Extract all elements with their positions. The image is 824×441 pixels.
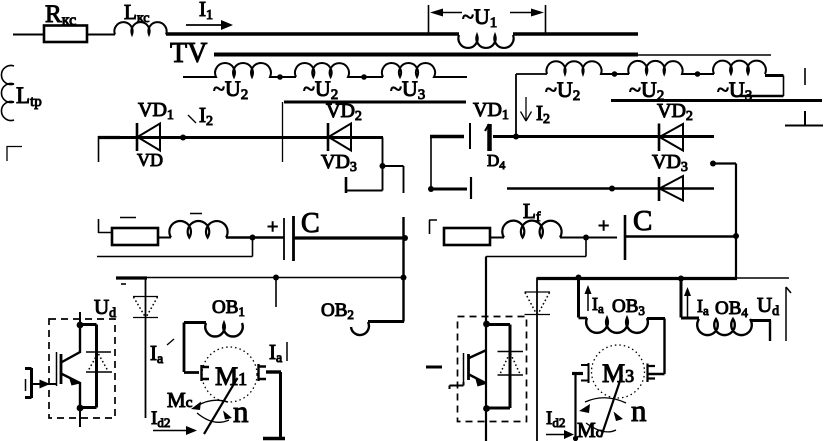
label Id2 left with arrow <box>151 408 197 435</box>
svg-text:VD3: VD3 <box>321 151 357 175</box>
svg-text:+: + <box>267 216 278 238</box>
diode IGBT antiparallel left <box>86 352 112 372</box>
node dot <box>250 235 256 241</box>
wire rail left <box>116 276 147 279</box>
transformer secondary winding left group 2 <box>295 63 383 77</box>
node I2 junction <box>180 135 186 141</box>
svg-text:Ltp: Ltp <box>16 83 42 110</box>
annotation ~U1 <box>429 4 546 34</box>
winding OB3 <box>579 278 666 375</box>
svg-text:Ud: Ud <box>757 293 779 319</box>
current arrow I1 <box>186 0 233 30</box>
tick mark <box>121 283 126 285</box>
svg-text:TV: TV <box>170 38 207 69</box>
wire <box>226 236 284 238</box>
svg-text:VD2: VD2 <box>657 100 693 124</box>
winding OB4 <box>681 279 771 342</box>
wire cathode bus right <box>493 135 714 138</box>
diode freewheeling left <box>133 297 158 318</box>
wire filter input corner right <box>429 220 437 234</box>
transformer secondary winding right group 2 <box>628 61 714 74</box>
arrow Mc arcs left <box>191 400 229 422</box>
wire left start corner <box>98 136 120 139</box>
wire filter input corner left <box>99 219 113 233</box>
svg-text:Lf: Lf <box>523 199 541 225</box>
node dot <box>710 161 716 167</box>
resistor Rkc <box>44 1 87 42</box>
node dot <box>612 71 618 77</box>
winding OB1 <box>184 323 243 373</box>
svg-text:VD1: VD1 <box>473 99 509 123</box>
wire upper bus left <box>284 101 466 104</box>
wire anode bus right <box>507 187 714 190</box>
node dot <box>277 74 283 80</box>
svg-text:~U1: ~U1 <box>462 4 497 31</box>
transformer TV primary winding <box>458 35 513 48</box>
svg-text:Id2: Id2 <box>546 408 565 430</box>
svg-text:~U2: ~U2 <box>545 77 580 104</box>
diode freewheeling right <box>525 292 551 315</box>
wire return branch left <box>97 238 253 257</box>
inductor Lf left <box>169 221 227 238</box>
wire <box>87 34 115 36</box>
svg-text:Mc: Mc <box>167 388 193 412</box>
inductor Lf right <box>502 221 561 238</box>
wire output link right <box>713 164 736 279</box>
diode VD3 cathode bar left <box>345 177 348 193</box>
winding OB2 <box>351 322 404 336</box>
contact bar <box>470 177 472 199</box>
wire cap output left <box>294 236 405 239</box>
label Ia right <box>269 340 287 366</box>
node dot <box>695 71 701 77</box>
svg-text:OB4: OB4 <box>715 298 748 320</box>
terminal gate left <box>25 368 32 398</box>
wire diode line right <box>536 278 538 441</box>
motor M3 circle <box>592 345 645 398</box>
arrow Ud right <box>786 287 791 341</box>
svg-text:n: n <box>631 393 647 428</box>
transformer secondary winding right group 3 <box>713 61 766 74</box>
wire IGBT feed right <box>485 257 487 441</box>
svg-text:C: C <box>633 205 652 237</box>
svg-text:VD2: VD2 <box>326 100 362 124</box>
diode VD1 <box>137 123 160 151</box>
wire cathode bus left <box>99 136 383 139</box>
wire <box>560 237 617 239</box>
motor M1 circle <box>202 347 257 402</box>
svg-text:I1: I1 <box>199 0 213 23</box>
svg-text:~U2: ~U2 <box>303 76 338 103</box>
svg-text:VD3: VD3 <box>652 151 688 175</box>
wire diode branch right <box>487 325 511 409</box>
node dot <box>483 405 490 412</box>
transformer TV core bar <box>214 53 638 57</box>
node dot <box>77 322 84 329</box>
svg-text:I2: I2 <box>536 101 550 127</box>
diode VD2 right <box>659 124 683 152</box>
transformer secondary winding left group 1 <box>183 63 296 77</box>
wire return branch right <box>486 238 586 257</box>
label Id2 right with arrow <box>546 408 574 439</box>
wire positive feed left <box>402 217 404 322</box>
IGBT module box left <box>49 319 115 418</box>
wire collector pin <box>79 312 81 325</box>
wire cap output right <box>626 235 736 237</box>
diode IGBT antiparallel right <box>498 352 524 376</box>
inductor Lkc <box>114 0 166 35</box>
label remains <box>120 214 202 218</box>
label I2 with tick <box>188 103 213 129</box>
ground right edge <box>785 111 823 126</box>
svg-text:VD: VD <box>137 150 163 170</box>
svg-text:I2: I2 <box>199 103 213 129</box>
node dot <box>77 405 84 412</box>
wire rail right <box>537 277 738 280</box>
label Ia OB4 Ud <box>684 287 779 320</box>
arrow Mc arcs right <box>579 398 626 432</box>
node dot <box>401 275 407 281</box>
node dot <box>576 275 582 281</box>
node dot <box>273 275 279 281</box>
transistor IGBT left <box>57 325 81 408</box>
svg-text:~U3: ~U3 <box>390 76 425 103</box>
wire right corner bracket <box>430 135 464 138</box>
corner mark left edge <box>7 147 22 162</box>
brush M1 left <box>202 365 210 381</box>
brush M3 right <box>648 364 656 383</box>
node dot <box>583 235 589 241</box>
svg-text:+: + <box>598 215 609 237</box>
node dot <box>380 163 386 169</box>
wire primary line <box>166 32 638 35</box>
node dot <box>361 74 367 80</box>
IGBT module box right <box>458 317 527 422</box>
transformer secondary winding left group 3 <box>382 63 467 77</box>
diode VD2 <box>328 123 351 151</box>
wire upper bus right <box>611 99 822 102</box>
label I2 right with arrow <box>521 97 551 127</box>
label Ia left <box>150 339 174 367</box>
node dot <box>483 321 490 328</box>
resistor filter left <box>112 228 158 245</box>
shaft M3 <box>601 375 622 437</box>
wire gate right <box>450 382 464 389</box>
wire right edge stub <box>804 68 806 85</box>
transistor IGBT right <box>464 350 487 387</box>
wire gate with arrow <box>32 380 57 389</box>
node dot <box>428 186 434 192</box>
label minus <box>426 366 442 369</box>
svg-text:D4: D4 <box>487 151 505 172</box>
svg-text:VD1: VD1 <box>138 99 174 123</box>
transformer secondary winding right group 1 <box>546 61 629 74</box>
wire OB1 stub <box>275 278 277 308</box>
capacitor C left <box>284 216 294 261</box>
svg-text:Ud: Ud <box>94 295 116 321</box>
wire M3 left bracket <box>572 374 583 441</box>
shaft M1 <box>204 378 238 434</box>
wire diode branch left <box>80 325 97 408</box>
wire secondary right lead <box>516 74 547 136</box>
wire Ia line left <box>145 278 147 419</box>
wire emitter pin <box>79 408 81 427</box>
svg-text:C: C <box>301 208 320 239</box>
node dot <box>513 134 519 140</box>
wire winding end step <box>765 74 784 77</box>
svg-text:OB1: OB1 <box>212 297 245 319</box>
svg-text:n: n <box>233 394 249 429</box>
arrow n left <box>223 394 249 429</box>
svg-text:Ia: Ia <box>697 296 709 318</box>
diode VD3 right <box>659 176 683 201</box>
diode VD1 right marks <box>470 123 490 151</box>
svg-text:OB2: OB2 <box>321 300 354 322</box>
svg-text:OB3: OB3 <box>612 296 645 318</box>
svg-text:Lкс: Lкс <box>124 0 150 26</box>
wire M1 right bracket <box>263 372 285 439</box>
resistor filter right <box>444 228 490 245</box>
arrow n right <box>614 393 648 428</box>
label Ia OB3 <box>585 285 645 318</box>
node dot <box>733 233 739 239</box>
inductor Ltp <box>1 66 41 121</box>
svg-text:Rкс: Rкс <box>45 1 76 29</box>
svg-text:Ia: Ia <box>150 341 164 367</box>
wire <box>158 237 171 239</box>
capacitor C right <box>624 215 627 260</box>
wire source lead <box>13 34 44 36</box>
wire anode stub <box>430 188 467 191</box>
wire VD3 link <box>346 138 404 194</box>
svg-text:~U2: ~U2 <box>213 76 248 103</box>
wire <box>490 237 504 239</box>
brush M1 right <box>259 364 267 381</box>
svg-text:Mc: Mc <box>577 418 603 441</box>
node dot <box>402 235 408 241</box>
brush M3 left <box>581 363 589 383</box>
node dot <box>678 276 684 282</box>
svg-text:Ia: Ia <box>592 294 604 316</box>
node dot <box>609 186 615 192</box>
svg-text:Ia: Ia <box>269 340 283 366</box>
